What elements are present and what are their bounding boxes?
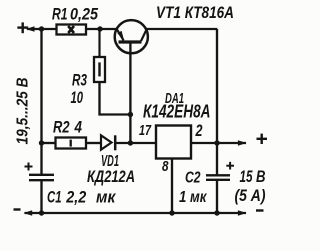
capacitor C1 xyxy=(25,163,117,207)
node R3 top junction xyxy=(97,26,102,31)
output plus sign xyxy=(257,134,268,144)
wire C2 top lead xyxy=(216,143,218,175)
wire R2 to VD1 xyxy=(86,142,101,144)
wire left bus upper (input + to R2 node) xyxy=(40,29,42,143)
diode VD1 xyxy=(87,135,135,186)
input plus sign xyxy=(17,22,28,33)
wire bottom minus rail xyxy=(25,212,247,214)
svg-text:1 мк: 1 мк xyxy=(179,189,207,206)
transistor VT1 xyxy=(115,4,234,53)
svg-text:19,5...25 В: 19,5...25 В xyxy=(15,78,32,145)
svg-text:C1: C1 xyxy=(47,188,62,207)
wire VT1 collector to top-right corner xyxy=(146,28,217,30)
svg-text:2,2: 2,2 xyxy=(65,188,86,207)
IC DA1 xyxy=(139,90,211,175)
wire DA1 pin 2 to output arrow xyxy=(191,142,246,144)
output minus sign xyxy=(256,209,264,211)
resistor R3 xyxy=(71,29,106,107)
wire C1 bottom to minus bus xyxy=(40,181,42,213)
resistor R1 xyxy=(52,4,98,34)
svg-text:C2: C2 xyxy=(185,170,201,187)
svg-text:2: 2 xyxy=(195,122,203,140)
svg-text:R2: R2 xyxy=(53,118,70,137)
node output plus junction xyxy=(214,140,219,145)
svg-text:17: 17 xyxy=(139,123,152,139)
arrow output plus right xyxy=(238,140,247,145)
wire top input segment with arrow xyxy=(27,28,57,30)
svg-text:4: 4 xyxy=(74,118,83,137)
arrow output minus right xyxy=(238,210,247,215)
svg-text:8: 8 xyxy=(162,159,169,175)
resistor R2 xyxy=(53,118,86,149)
wire right vertical collector-to-output xyxy=(216,29,218,143)
node C1 minus junction xyxy=(39,210,44,215)
wire R3 bottom to base junction xyxy=(100,82,131,115)
node input plus junction xyxy=(39,26,44,31)
node pin8 minus junction xyxy=(169,210,174,215)
wire C2 bottom lead xyxy=(216,181,218,214)
svg-text:R1: R1 xyxy=(52,4,68,23)
input minus sign xyxy=(14,208,21,210)
svg-text:15: 15 xyxy=(240,167,253,186)
svg-text:0,25: 0,25 xyxy=(70,4,98,23)
wire R1 to VT1 emitter xyxy=(86,28,117,30)
node C2 minus junction xyxy=(214,210,219,215)
arrow input left xyxy=(26,26,35,31)
wire R2 node to R2 xyxy=(42,142,56,144)
wire VD1 to DA1 pin 17 xyxy=(116,142,157,144)
node R3/base junction xyxy=(128,112,133,117)
arrow bottom left xyxy=(24,210,33,215)
node R2 branch junction xyxy=(39,140,44,145)
svg-text:R3: R3 xyxy=(72,71,87,90)
wire left bus R2 node to C1 top xyxy=(40,143,42,174)
node base/VD1 junction xyxy=(128,140,133,145)
svg-text:(5 А): (5 А) xyxy=(235,186,266,205)
svg-text:VT1 КТ816А: VT1 КТ816А xyxy=(156,4,234,22)
svg-text:мк: мк xyxy=(96,188,117,207)
svg-text:КД212А: КД212А xyxy=(87,168,135,186)
capacitor C2 xyxy=(179,162,234,206)
svg-text:К142ЕН8А: К142ЕН8А xyxy=(143,102,211,122)
wire VT1 base lead xyxy=(129,44,131,144)
svg-text:В: В xyxy=(256,167,266,186)
wire DA1 pin 8 lead xyxy=(171,159,173,214)
svg-text:10: 10 xyxy=(71,88,84,107)
